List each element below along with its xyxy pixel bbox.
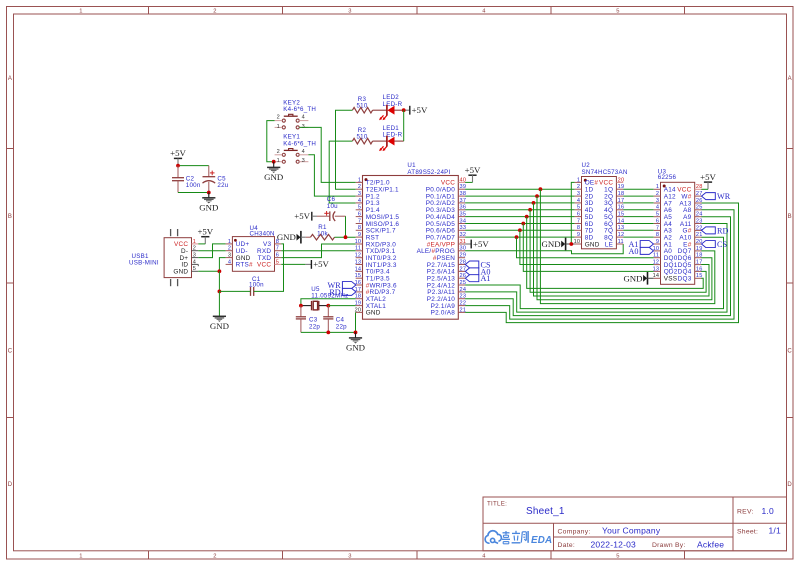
svg-text:K4-6*6_TH: K4-6*6_TH bbox=[283, 141, 316, 148]
svg-text:4: 4 bbox=[482, 553, 486, 559]
wire U1 XTAL2 to crystal bbox=[301, 299, 356, 306]
net tag WR (U3 W#) bbox=[702, 193, 716, 200]
svg-text:2: 2 bbox=[277, 149, 280, 155]
switch KEY2 bbox=[275, 99, 317, 129]
svg-text:C: C bbox=[8, 349, 13, 355]
svg-text:8: 8 bbox=[656, 232, 659, 238]
svg-text:VCC: VCC bbox=[257, 262, 271, 269]
node crystal right bbox=[326, 304, 330, 308]
svg-text:1: 1 bbox=[577, 177, 580, 183]
ground (below C5) bbox=[199, 193, 218, 213]
capacitor C3 bbox=[296, 306, 321, 333]
wire U1 P2.0/A8 to U3 A13 pin26 bbox=[465, 203, 738, 323]
svg-text:+5V: +5V bbox=[412, 105, 428, 115]
svg-text:4: 4 bbox=[228, 259, 231, 265]
svg-text:8: 8 bbox=[276, 239, 279, 245]
svg-text:D: D bbox=[8, 482, 13, 488]
resistor R2 bbox=[352, 127, 372, 144]
svg-text:LED-R: LED-R bbox=[383, 101, 403, 108]
wire U1 ALE to U2 LE bbox=[465, 244, 623, 254]
svg-text:7: 7 bbox=[577, 218, 580, 224]
+5V power port (USB) bbox=[197, 227, 213, 244]
wire U1 P0.0/AD0 to U2 1D bbox=[465, 188, 575, 190]
svg-text:+5V: +5V bbox=[473, 239, 489, 249]
svg-text:+5V: +5V bbox=[294, 211, 310, 221]
svg-text:1: 1 bbox=[79, 9, 82, 15]
LED1 LED-R bbox=[373, 125, 404, 151]
net tag A0 (U1 P2.6) bbox=[465, 268, 479, 275]
svg-text:1.0: 1.0 bbox=[762, 506, 774, 516]
wire USB D+ to U4 UD+ bbox=[198, 244, 225, 258]
net tag A0 (U3 A0) bbox=[640, 247, 653, 254]
svg-text:3: 3 bbox=[193, 253, 196, 259]
node AD7 junction bbox=[515, 235, 519, 239]
svg-text:7: 7 bbox=[276, 246, 279, 252]
svg-text:100n: 100n bbox=[186, 182, 201, 189]
+5V flag (C6) bbox=[294, 211, 312, 221]
wire U4 VCC to +5V flag bbox=[281, 263, 305, 265]
svg-text:4: 4 bbox=[193, 259, 196, 265]
svg-text:62256: 62256 bbox=[658, 174, 677, 181]
wire U1 VCC to +5V bbox=[465, 181, 472, 183]
svg-text:Date:: Date: bbox=[558, 542, 576, 549]
wire AD2 to U3 DQ5 bbox=[534, 203, 710, 296]
svg-text:23: 23 bbox=[696, 218, 703, 224]
svg-text:2: 2 bbox=[228, 246, 231, 252]
wire C1 left bbox=[219, 290, 250, 292]
resistor R1 bbox=[301, 224, 335, 240]
svg-text:GND: GND bbox=[585, 241, 600, 248]
ground flag (R1) bbox=[277, 231, 301, 244]
+5V flag (U4 VCC) bbox=[305, 259, 329, 269]
svg-text:GND: GND bbox=[366, 310, 381, 317]
svg-text:22p: 22p bbox=[336, 323, 347, 330]
+5V power port (C2/C5) bbox=[170, 148, 186, 165]
svg-text:21: 21 bbox=[696, 232, 703, 238]
svg-text:6: 6 bbox=[358, 212, 361, 218]
svg-text:3: 3 bbox=[577, 191, 580, 197]
svg-text:GND: GND bbox=[623, 273, 642, 283]
svg-text:9: 9 bbox=[656, 239, 659, 245]
net tag CS (U1 P2.7) bbox=[465, 261, 479, 268]
svg-text:GND: GND bbox=[173, 269, 188, 276]
svg-text:9: 9 bbox=[358, 232, 361, 238]
resistor R3 bbox=[352, 96, 372, 113]
wire AD3 to U3 DQ4 bbox=[530, 210, 706, 292]
+5V power port (U1 VCC) bbox=[465, 165, 481, 182]
svg-text:4: 4 bbox=[302, 149, 305, 155]
svg-text:11.0592MHz: 11.0592MHz bbox=[311, 292, 348, 299]
svg-text:REV:: REV: bbox=[737, 509, 754, 516]
crystal U5 11.0592MHz bbox=[301, 286, 349, 310]
svg-text:22p: 22p bbox=[309, 323, 320, 330]
svg-text:1: 1 bbox=[656, 184, 659, 190]
net tag A1 (U1 P2.5) bbox=[465, 275, 479, 282]
ground (crystal) bbox=[346, 332, 365, 352]
wire U1 P2.2/A10 to U3 A9 pin24 bbox=[465, 217, 730, 316]
svg-text:+5V: +5V bbox=[170, 148, 186, 158]
svg-text:1: 1 bbox=[228, 239, 231, 245]
svg-text:A1: A1 bbox=[481, 274, 491, 283]
svg-text:2: 2 bbox=[193, 246, 196, 252]
svg-text:5: 5 bbox=[616, 9, 619, 15]
svg-text:13: 13 bbox=[355, 259, 362, 265]
wire rail to ground symbol bbox=[218, 291, 220, 316]
svg-text:A: A bbox=[788, 76, 792, 82]
svg-text:2: 2 bbox=[277, 115, 280, 121]
svg-text:LE: LE bbox=[605, 241, 613, 248]
wire AD0 to U3 DQ7 bbox=[540, 189, 714, 303]
wire U1 P0.3/AD3 to U2 4D bbox=[465, 209, 575, 211]
wire U2 5Q to U3 pin5 bbox=[623, 216, 654, 218]
ground (USB rail) bbox=[210, 316, 229, 331]
node crystal left bbox=[299, 304, 303, 308]
wire ground rail down bbox=[218, 271, 220, 291]
svg-text:4: 4 bbox=[482, 9, 486, 15]
wire U1 P0.2/AD2 to U2 3D bbox=[465, 202, 575, 204]
node AD1 junction bbox=[535, 194, 539, 198]
svg-text:Ackfee: Ackfee bbox=[697, 539, 724, 549]
svg-text:CS: CS bbox=[717, 240, 727, 249]
svg-text:24: 24 bbox=[696, 212, 703, 218]
node C4 bottom bbox=[326, 331, 330, 335]
wire USB D- to U4 UD- bbox=[198, 250, 225, 252]
node AD0 junction bbox=[539, 187, 543, 191]
wire U2 7Q to U3 pin7 bbox=[623, 229, 654, 231]
+5V flag (LEDs) bbox=[404, 105, 428, 115]
svg-text:Drawn By:: Drawn By: bbox=[652, 542, 686, 549]
svg-text:B: B bbox=[788, 214, 792, 220]
svg-text:EDA: EDA bbox=[531, 535, 552, 546]
+5V flag (U1 EA) bbox=[465, 239, 489, 249]
node RST junction bbox=[344, 235, 348, 239]
svg-text:Sheet:: Sheet: bbox=[737, 528, 758, 535]
svg-text:29: 29 bbox=[460, 253, 467, 259]
svg-text:5: 5 bbox=[276, 259, 279, 265]
svg-text:14: 14 bbox=[355, 266, 362, 272]
svg-text:6: 6 bbox=[577, 212, 580, 218]
svg-text:2: 2 bbox=[213, 553, 216, 559]
wire C3/C4 bottoms to GND bbox=[301, 331, 356, 333]
node AD6 junction bbox=[518, 228, 522, 232]
svg-text:Your Company: Your Company bbox=[602, 526, 661, 536]
wire U1 P0.6/AD6 to U2 7D bbox=[465, 229, 575, 231]
node AD3 junction bbox=[528, 208, 532, 212]
svg-text:Sheet_1: Sheet_1 bbox=[526, 506, 565, 517]
wire C2 bottom to C5 bottom bbox=[178, 192, 209, 194]
svg-text:+5V: +5V bbox=[197, 227, 213, 237]
JLC EDA logo bbox=[485, 531, 552, 546]
svg-text:25: 25 bbox=[696, 205, 703, 211]
IC U4 CH340N bbox=[226, 225, 282, 271]
svg-text:1: 1 bbox=[358, 177, 361, 183]
svg-text:GND: GND bbox=[277, 232, 296, 242]
svg-text:A0: A0 bbox=[628, 247, 638, 256]
svg-text:5: 5 bbox=[616, 553, 619, 559]
wire U1 P2.1/A9 to U3 A8 pin25 bbox=[465, 210, 734, 319]
svg-text:26: 26 bbox=[696, 198, 703, 204]
ground (keys) bbox=[264, 162, 283, 182]
svg-text:3: 3 bbox=[302, 124, 305, 130]
wire U3 VCC to +5V bbox=[701, 188, 708, 190]
node AD2 junction bbox=[532, 201, 536, 205]
net tag WR (U1 P3.6) bbox=[342, 282, 356, 289]
svg-text:USB-MINI: USB-MINI bbox=[129, 260, 159, 267]
node LED +5V junction bbox=[402, 108, 406, 112]
title block bbox=[483, 497, 787, 551]
wire R2 to U1 pin4 bbox=[329, 141, 356, 203]
wire U2 2Q to U3 pin2 bbox=[623, 195, 654, 197]
svg-text:B: B bbox=[8, 214, 12, 220]
svg-text:GND: GND bbox=[264, 172, 283, 182]
wire U1 P2.4/A12 to U3 A10 pin21 bbox=[465, 237, 723, 308]
net tag CS (U3 E#) bbox=[702, 241, 716, 248]
wire KEY1 pin4 to U1 pin3 bbox=[308, 155, 355, 196]
svg-text:DQ3: DQ3 bbox=[678, 276, 692, 283]
svg-text:TITLE:: TITLE: bbox=[487, 501, 507, 508]
svg-text:K4-6*6_TH: K4-6*6_TH bbox=[283, 106, 316, 113]
svg-text:7: 7 bbox=[656, 225, 659, 231]
svg-text:9: 9 bbox=[577, 232, 580, 238]
svg-text:4: 4 bbox=[302, 115, 305, 121]
wire R1 to U1 RST bbox=[335, 236, 356, 238]
svg-text:12: 12 bbox=[355, 253, 362, 259]
svg-text:WR: WR bbox=[717, 192, 731, 201]
wire C6 to RST node bbox=[345, 216, 347, 237]
wire U1 P2.3/A11 to U3 A11 pin23 bbox=[465, 224, 727, 313]
wire AD4 to U3 DQ3 bbox=[527, 217, 704, 289]
capacitor C2 bbox=[172, 166, 201, 193]
svg-text:3: 3 bbox=[348, 553, 351, 559]
node USB ground junction bbox=[218, 269, 222, 273]
wire U1 P0.7/AD7 to U2 8D bbox=[465, 236, 575, 238]
svg-text:15: 15 bbox=[355, 273, 362, 279]
svg-text:2: 2 bbox=[577, 184, 580, 190]
svg-text:1: 1 bbox=[79, 553, 82, 559]
ground flag (U2) bbox=[542, 238, 575, 251]
svg-text:3: 3 bbox=[358, 191, 361, 197]
svg-text:GND: GND bbox=[210, 321, 229, 331]
svg-text:AT89S52-24PI: AT89S52-24PI bbox=[407, 169, 450, 176]
svg-text:1: 1 bbox=[277, 124, 280, 130]
node C5/GND junction bbox=[207, 191, 211, 195]
wire KEY2 pin2 down to KEY1 pin1 / GND bbox=[267, 121, 275, 162]
net tag A1 (U3 A1) bbox=[640, 241, 653, 248]
wire LED1 to +5V node bbox=[403, 110, 405, 141]
LED2 LED-R bbox=[373, 94, 404, 120]
wire AD7 to U3 DQ0 bbox=[517, 237, 654, 258]
svg-text:20: 20 bbox=[618, 177, 625, 183]
wire AD6 to U3 DQ1 bbox=[520, 230, 654, 264]
svg-text:5: 5 bbox=[577, 205, 580, 211]
wire AD1 to U3 DQ6 bbox=[537, 196, 712, 300]
svg-text:GND: GND bbox=[542, 239, 561, 249]
svg-text:10: 10 bbox=[355, 239, 362, 245]
connector USB1 USB-MINI bbox=[129, 229, 198, 286]
capacitor C4 bbox=[323, 306, 347, 333]
svg-text:1: 1 bbox=[193, 239, 196, 245]
svg-text:8: 8 bbox=[577, 225, 580, 231]
svg-text:GND: GND bbox=[346, 343, 365, 353]
svg-text:6: 6 bbox=[656, 218, 659, 224]
wire crystal to U1 XTAL1 bbox=[328, 305, 355, 307]
svg-text:4: 4 bbox=[656, 205, 659, 211]
wire KEY2 pin3 to U1 pin1 bbox=[299, 127, 355, 182]
node +5V/C2 junction bbox=[176, 164, 180, 168]
svg-text:8: 8 bbox=[358, 225, 361, 231]
IC U2 SN74HC573AN bbox=[574, 162, 628, 249]
svg-text:11: 11 bbox=[653, 253, 659, 259]
capacitor C1 bbox=[249, 276, 264, 296]
svg-text:3: 3 bbox=[656, 198, 659, 204]
svg-text:7: 7 bbox=[358, 218, 361, 224]
svg-text:+5V: +5V bbox=[465, 165, 481, 175]
svg-text:1/1: 1/1 bbox=[769, 526, 781, 536]
wire AD5 to U3 QD2 bbox=[523, 224, 653, 272]
wire U1 GND pin down bbox=[355, 312, 357, 332]
IC U3 62256 bbox=[653, 168, 703, 284]
svg-text:4: 4 bbox=[577, 198, 580, 204]
wire U1 P0.1/AD1 to U2 2D bbox=[465, 195, 575, 197]
node AD5 junction bbox=[521, 222, 525, 226]
svg-text:RD: RD bbox=[717, 226, 728, 235]
svg-text:2022-12-03: 2022-12-03 bbox=[591, 539, 637, 549]
svg-text:C: C bbox=[787, 349, 792, 355]
wire U2 3Q to U3 pin3 bbox=[623, 202, 654, 204]
svg-text:Company:: Company: bbox=[558, 528, 591, 535]
svg-text:D: D bbox=[787, 482, 792, 488]
svg-text:GND: GND bbox=[199, 202, 218, 212]
IC U1 AT89S52-24PI bbox=[355, 162, 467, 319]
wire U2 8Q to U3 pin8 bbox=[623, 236, 654, 238]
svg-text:11: 11 bbox=[618, 239, 624, 245]
wire U2 OE# to GND net bbox=[571, 182, 574, 244]
svg-text:A: A bbox=[8, 76, 12, 82]
svg-text:11: 11 bbox=[355, 246, 361, 252]
svg-text:5: 5 bbox=[358, 205, 361, 211]
svg-text:22u: 22u bbox=[217, 182, 228, 189]
svg-text:2: 2 bbox=[213, 9, 216, 15]
wire U4 GND down to ground rail bbox=[219, 258, 225, 272]
svg-text:RTS#: RTS# bbox=[236, 262, 253, 269]
capacitor C5 (polarized) bbox=[203, 166, 229, 193]
wire U2 1Q to U3 pin1 bbox=[623, 188, 654, 190]
wire USB GND to rail bbox=[198, 270, 219, 272]
svg-text:3: 3 bbox=[228, 253, 231, 259]
wire C1 right to U4 V3 bbox=[254, 244, 284, 292]
net tag RD (U3 G#) bbox=[702, 227, 716, 234]
svg-text:2: 2 bbox=[358, 184, 361, 190]
svg-text:5: 5 bbox=[656, 212, 659, 218]
svg-text:+5V: +5V bbox=[700, 172, 716, 182]
wire R3 to U1 pin2 bbox=[336, 110, 356, 189]
node key ground junction bbox=[272, 160, 276, 164]
wire U1 P0.5/AD5 to U2 6D bbox=[465, 223, 575, 225]
switch KEY1 bbox=[275, 134, 317, 164]
svg-text:10u: 10u bbox=[327, 203, 338, 210]
node AD4 junction bbox=[525, 215, 529, 219]
USB ID pin end hook bbox=[197, 264, 199, 266]
capacitor C6 (polarized) bbox=[312, 196, 346, 221]
svg-text:100n: 100n bbox=[249, 281, 264, 288]
svg-text:3: 3 bbox=[348, 9, 351, 15]
+5V power port (U3 VCC) bbox=[700, 172, 716, 189]
node C1 junction bbox=[218, 290, 222, 294]
svg-text:+5V: +5V bbox=[313, 259, 329, 269]
node U2 GND junction bbox=[569, 242, 573, 246]
svg-text:VSS: VSS bbox=[664, 276, 678, 283]
wire U4 TXD to U1 RXD bbox=[281, 244, 355, 258]
ground flag (U3 VSS) bbox=[623, 272, 653, 285]
svg-text:1: 1 bbox=[277, 158, 280, 164]
svg-text:4: 4 bbox=[358, 198, 361, 204]
wire +5V to C5 top bbox=[178, 165, 209, 167]
svg-text:6: 6 bbox=[276, 253, 279, 259]
svg-text:SN74HC573AN: SN74HC573AN bbox=[582, 169, 628, 176]
node U1 GND junction bbox=[354, 331, 358, 335]
svg-text:5: 5 bbox=[193, 266, 196, 272]
svg-text:P2.0/A8: P2.0/A8 bbox=[431, 310, 456, 317]
wire U1 P0.4/AD4 to U2 5D bbox=[465, 216, 575, 218]
wire U4 RXD to U1 TXD bbox=[281, 250, 355, 252]
svg-text:3: 3 bbox=[302, 158, 305, 164]
wire U2 4Q to U3 pin4 bbox=[623, 209, 654, 211]
wire U2 6Q to U3 pin6 bbox=[623, 223, 654, 225]
svg-text:LED-R: LED-R bbox=[383, 132, 403, 139]
svg-text:2: 2 bbox=[656, 191, 659, 197]
net tag RD (U1 P3.7) bbox=[342, 288, 356, 295]
wire USB VCC to +5V bbox=[198, 243, 205, 245]
